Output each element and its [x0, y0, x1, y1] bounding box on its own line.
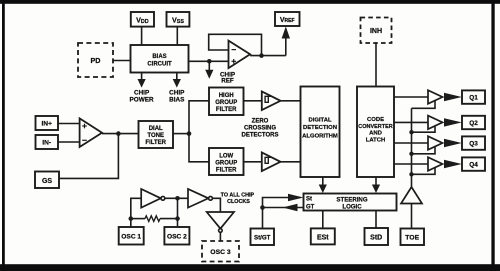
power pin VDD [131, 12, 154, 27]
power pin VSS [167, 12, 190, 27]
svg-text:PD: PD [91, 56, 101, 65]
wire high group filter to comparator U3 [244, 100, 262, 102]
wire IN+ to op-amp U2 [58, 123, 80, 125]
svg-text:CODE: CODE [367, 117, 384, 123]
wire junction down to OSC2 [177, 198, 179, 227]
svg-text:LOW: LOW [219, 154, 233, 160]
svg-text:STEERING: STEERING [336, 196, 367, 203]
svg-text:HIGH: HIGH [219, 93, 234, 99]
pin OSC 2 [164, 227, 189, 245]
svg-text:CONVERTER: CONVERTER [358, 124, 393, 130]
svg-text:TONE: TONE [147, 133, 164, 139]
svg-text:LATCH: LATCH [366, 137, 386, 143]
op-amp U1 chip reference buffer [229, 41, 251, 69]
wire to resistor [131, 218, 145, 220]
pin IN+ [36, 116, 59, 130]
wire to VREF pin with up arrow [282, 27, 290, 56]
three-state buffer U8 (Q4) [428, 157, 443, 171]
pin Q4 [462, 157, 485, 170]
svg-text:TOE: TOE [405, 234, 419, 241]
arrow buffer to Q4 [444, 160, 462, 168]
wire comparator U4 output [281, 161, 301, 163]
svg-text:OSC 3: OSC 3 [210, 249, 231, 256]
label CHIP POWER [130, 89, 155, 103]
svg-text:St/GT: St/GT [254, 234, 271, 241]
label CHIP REF [220, 71, 235, 84]
comparator U3 high-group zero crossing detector [262, 92, 281, 111]
node enable junction 3 [409, 172, 413, 176]
svg-text:BIAS: BIAS [169, 96, 185, 103]
wire enable branch to buffer U8 [412, 167, 436, 174]
arrow digital detection algorithm to steering logic [319, 177, 327, 193]
block DIAL TONE FILTER [139, 121, 174, 148]
pin TOE [401, 229, 425, 246]
svg-text:REF: REF [221, 78, 234, 85]
node oscillator left junction [129, 216, 134, 221]
wire code converter to buffer Q3 [394, 142, 428, 144]
three-state buffer U5 (Q1) [428, 90, 443, 104]
block LOW GROUP FILTER [209, 148, 244, 175]
wire VSS to bias circuit [176, 27, 178, 45]
svg-text:ESt: ESt [317, 234, 329, 241]
arrow code converter to steering logic [372, 177, 380, 193]
wire St input with right arrow [263, 194, 304, 229]
node U1 output junction [259, 53, 264, 58]
wire inverter U11 output to clock driver [212, 198, 220, 212]
svg-text:DIGITAL: DIGITAL [308, 118, 332, 124]
pin OSC 3 (dashed) [202, 241, 239, 262]
svg-text:StD: StD [370, 235, 382, 242]
svg-text:BIAS: BIAS [152, 54, 166, 60]
label ZERO CROSSING DETECTORS [242, 118, 279, 138]
pin Q2 [462, 116, 485, 129]
svg-text:INH: INH [370, 28, 382, 35]
svg-text:Q3: Q3 [469, 141, 478, 148]
svg-text:ZERO: ZERO [252, 118, 269, 124]
pin St/GT [251, 229, 275, 246]
wire left junction down to OSC1 [130, 219, 132, 227]
svg-text:GROUP: GROUP [215, 100, 237, 106]
wire U2 output to dial tone filter [102, 133, 139, 135]
svg-text:AND: AND [369, 131, 382, 137]
node oscillator right junction [175, 216, 180, 221]
svg-text:CROSSING: CROSSING [244, 125, 276, 131]
svg-text:VREF: VREF [280, 17, 295, 24]
svg-text:POWER: POWER [130, 96, 155, 103]
wire enable branch to buffer U7 [412, 146, 436, 153]
node inverter chain junction [175, 196, 180, 201]
block STEERING LOGIC [304, 194, 397, 211]
arrow chip ref [205, 62, 213, 79]
pin ESt [311, 228, 335, 244]
svg-text:CIRCUIT: CIRCUIT [147, 62, 172, 68]
wire clock driver to OSC3 [219, 232, 221, 241]
pin VREF [275, 12, 300, 26]
wire U1 output [250, 55, 286, 57]
svg-text:DIAL: DIAL [149, 126, 163, 132]
buffer U9 TOE driver [401, 187, 422, 204]
node enable junction 1 [409, 130, 413, 134]
pin Q1 [462, 90, 485, 103]
svg-text:GT: GT [306, 205, 315, 211]
wire resistor to right junction [160, 218, 178, 220]
block DIGITAL DETECTION ALGORITHM [301, 87, 340, 178]
node St/GT junction [260, 205, 265, 210]
svg-text:CHIP: CHIP [169, 89, 185, 96]
pin Q3 [462, 136, 485, 149]
svg-text:TO ALL CHIP: TO ALL CHIP [221, 193, 255, 199]
block CODE CONVERTER AND LATCH [357, 87, 394, 178]
svg-text:DETECTION: DETECTION [303, 125, 337, 131]
pin OSC 1 [119, 227, 144, 245]
wire U1 feedback loop [209, 34, 262, 55]
svg-text:ALGORITHM: ALGORITHM [302, 133, 338, 139]
wire gain-select feedback to GS [58, 134, 118, 179]
block BIAS CIRCUIT [131, 45, 189, 73]
resistor R1 oscillator feedback [145, 216, 160, 222]
node enable junction 2 [409, 152, 413, 156]
wire low group filter to comparator U4 [244, 161, 262, 163]
wire TOE pin to buffer U9 [411, 204, 413, 229]
wire enable branch to buffer U6 [412, 126, 436, 132]
inverter U12 clock driver [207, 212, 234, 232]
wire TOE enable line (vertical) [411, 108, 413, 187]
wire enable branch to buffer U5 [412, 100, 436, 108]
svg-text:GROUP: GROUP [215, 161, 237, 167]
pin GS [35, 172, 59, 189]
inverter U10 oscillator [141, 189, 165, 208]
three-state buffer U7 (Q3) [428, 136, 443, 150]
svg-text:FILTER: FILTER [145, 140, 166, 146]
svg-text:Q2: Q2 [469, 120, 478, 127]
node U2 output junction [116, 131, 121, 136]
node chip-bias junction [207, 59, 212, 64]
svg-text:CLOCKS: CLOCKS [227, 199, 250, 205]
arrow chip power [138, 73, 146, 88]
label CHIP BIAS [169, 89, 185, 103]
svg-text:IN+: IN+ [41, 121, 52, 128]
arrow chip bias [173, 73, 181, 88]
svg-text:LOGIC: LOGIC [342, 203, 362, 210]
wire INH to code converter [375, 43, 377, 87]
wire to high group filter [189, 101, 209, 134]
svg-text:GS: GS [42, 178, 52, 185]
inverter U11 oscillator [188, 189, 212, 208]
wire comparator U3 output [281, 100, 301, 102]
comparator U4 low-group zero crossing detector [262, 153, 281, 172]
node filter split junction [187, 131, 192, 136]
svg-text:Q4: Q4 [469, 162, 478, 169]
wire code converter to buffer Q1 [394, 96, 428, 98]
wire PD to bias circuit [113, 60, 131, 62]
svg-text:IN-: IN- [42, 140, 51, 147]
pin INH inhibit (dashed) [361, 18, 392, 44]
op-amp U2 input amplifier [80, 118, 102, 147]
label TO ALL CHIP CLOCKS [221, 193, 255, 205]
wire to low group filter [189, 134, 209, 162]
svg-text:DETECTORS: DETECTORS [242, 133, 279, 139]
pin PD power down (dashed) [78, 43, 113, 77]
wire inverter U10 output to U11 input [165, 197, 188, 199]
svg-text:CHIP: CHIP [134, 89, 150, 96]
wire inverter U10 input [131, 198, 141, 218]
arrow buffer to Q3 [444, 139, 462, 147]
wire steering logic to StD [375, 211, 377, 229]
svg-text:Q1: Q1 [469, 95, 478, 102]
wire dial tone filter output [173, 133, 189, 135]
wire VDD to bias circuit [141, 27, 143, 45]
svg-text:FILTER: FILTER [216, 107, 237, 113]
svg-text:OSC 1: OSC 1 [121, 233, 141, 240]
wire IN- to op-amp U2 [58, 141, 80, 143]
pin StD [365, 228, 389, 245]
wire steering logic to ESt [322, 211, 324, 229]
svg-text:FILTER: FILTER [216, 168, 237, 174]
pin IN- [36, 135, 59, 149]
wire code converter to buffer Q4 [394, 163, 428, 165]
svg-text:OSC 2: OSC 2 [167, 233, 187, 240]
arrow buffer to Q1 [444, 93, 462, 101]
svg-text:St: St [306, 197, 312, 203]
wire GT output with left arrow [263, 204, 304, 212]
wire code converter to buffer Q2 [394, 121, 428, 123]
three-state buffer U6 (Q2) [428, 116, 443, 130]
wire bias circuit to op-amp U1 non-inverting input [189, 60, 229, 62]
arrow buffer to Q2 [444, 118, 462, 126]
block HIGH GROUP FILTER [209, 88, 244, 116]
